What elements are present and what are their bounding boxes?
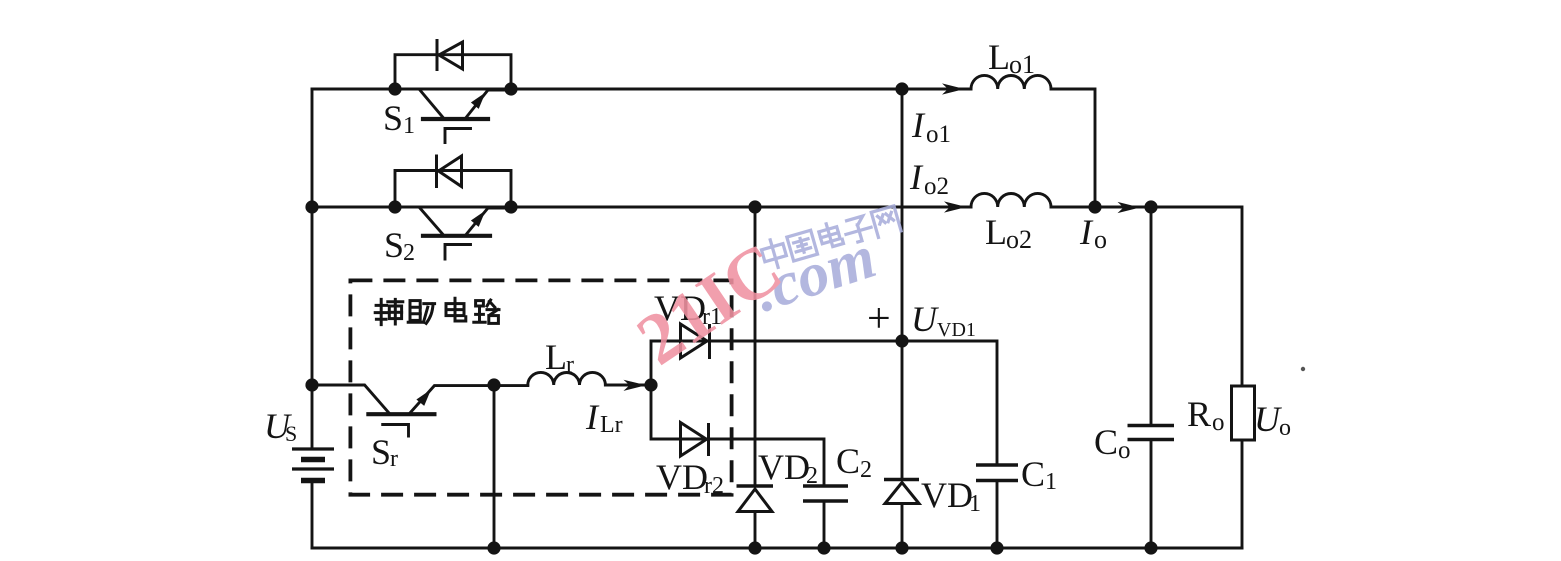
svg-text:U: U (1254, 399, 1282, 439)
svg-text:Lr: Lr (600, 412, 623, 438)
svg-text:S: S (383, 98, 403, 138)
svg-text:o: o (1279, 415, 1291, 441)
svg-text:U: U (911, 299, 939, 339)
svg-text:L: L (988, 37, 1010, 77)
svg-text:VD: VD (758, 447, 810, 487)
svg-text:C: C (1094, 422, 1118, 462)
svg-text:R: R (1187, 394, 1211, 434)
svg-text:S: S (371, 432, 391, 472)
svg-text:L: L (985, 212, 1007, 252)
svg-text:r2: r2 (704, 473, 724, 499)
svg-text:o2: o2 (924, 173, 949, 200)
svg-text:I: I (1079, 212, 1094, 252)
svg-text:r: r (390, 446, 398, 472)
svg-text:1: 1 (969, 491, 981, 517)
svg-text:S: S (285, 421, 297, 446)
svg-text:1: 1 (1045, 469, 1057, 495)
svg-text:2: 2 (403, 240, 415, 266)
svg-text:o: o (1094, 225, 1107, 254)
svg-text:VD: VD (921, 475, 973, 515)
svg-text:I: I (585, 397, 600, 437)
svg-text:o1: o1 (1009, 50, 1035, 79)
svg-text:VD1: VD1 (937, 319, 976, 341)
svg-text:r: r (566, 352, 574, 378)
svg-text:o1: o1 (926, 121, 951, 148)
svg-text:L: L (545, 337, 567, 377)
svg-text:VD: VD (656, 457, 708, 497)
svg-text:2: 2 (860, 457, 872, 483)
svg-text:+: + (867, 296, 891, 342)
svg-text:C: C (836, 441, 860, 481)
svg-text:2: 2 (806, 463, 818, 489)
svg-text:1: 1 (403, 113, 415, 139)
svg-text:S: S (384, 225, 404, 265)
svg-text:o2: o2 (1006, 225, 1032, 254)
svg-text:I: I (909, 157, 924, 197)
svg-text:o: o (1118, 437, 1131, 464)
svg-text:o: o (1212, 409, 1225, 436)
svg-text:C: C (1021, 454, 1045, 494)
svg-text:I: I (911, 105, 926, 145)
